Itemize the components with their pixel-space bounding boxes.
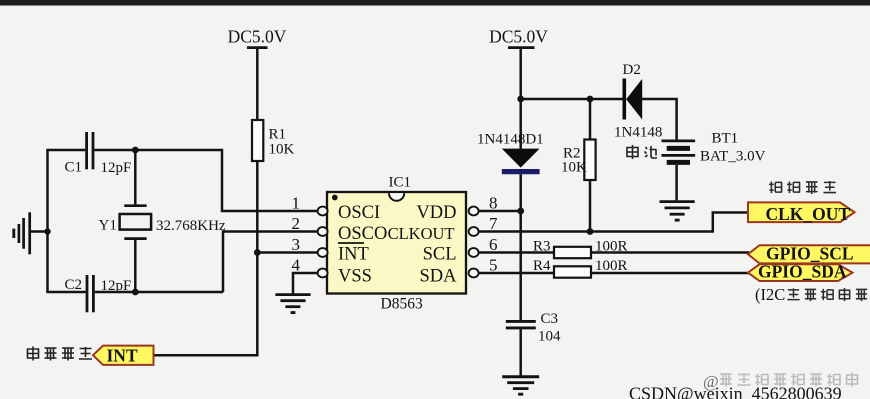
svg-text:6: 6 (489, 235, 498, 254)
label 时钟输出 (769, 181, 836, 194)
pin circles left (318, 207, 328, 278)
svg-text:VDD: VDD (416, 203, 456, 223)
svg-text:SDA: SDA (419, 267, 457, 287)
resistor R1 (252, 120, 263, 161)
IC pin1 marker dot (332, 195, 338, 201)
label 中断输出 (28, 347, 93, 361)
svg-text:C3: C3 (541, 311, 559, 327)
wire DC5.0V to R1 (256, 48, 259, 120)
junction dot vdd top (517, 96, 524, 103)
port GPIO_SCL (748, 245, 870, 263)
wire R3 to GPIO_SCL (591, 251, 749, 254)
IC notch (389, 193, 404, 201)
junction dot R2 top (587, 96, 594, 103)
svg-text:VSS: VSS (338, 267, 372, 287)
wire pin2 to bottom rail (223, 232, 318, 293)
svg-text:8: 8 (489, 194, 498, 213)
wire pin5 SDA (479, 272, 554, 275)
svg-text:5: 5 (489, 256, 498, 275)
svg-text:GPIO_SDA: GPIO_SDA (758, 262, 847, 282)
wire pin8 (479, 210, 521, 213)
junction dot pin3 line (254, 249, 261, 256)
wire pin7 CLKOUT to CLK_OUT (479, 213, 748, 232)
junction dot crystal bottom (132, 289, 139, 296)
svg-text:DC5.0V: DC5.0V (489, 27, 548, 47)
resistor R2 (589, 99, 592, 140)
watermark juejin (703, 372, 858, 391)
svg-text:CLK_OUT: CLK_OUT (766, 204, 851, 224)
svg-text:10K: 10K (561, 160, 587, 176)
junction dot pin8 (517, 208, 524, 215)
top border bar (0, 0, 870, 6)
wire INT horizontal (153, 354, 259, 357)
svg-text:4: 4 (292, 256, 301, 275)
wire top rail left segment (46, 149, 85, 152)
junction dot R2 bottom (587, 228, 594, 235)
wire left rail (46, 150, 49, 292)
svg-text:104: 104 (538, 329, 561, 345)
wire riser to pin1 (222, 151, 318, 211)
svg-text:32.768KHz: 32.768KHz (156, 218, 226, 234)
svg-text:BAT_3.0V: BAT_3.0V (700, 149, 766, 165)
svg-text:INT: INT (107, 346, 138, 366)
svg-text:D2: D2 (623, 62, 641, 78)
wire node to pin3 (257, 251, 318, 254)
svg-text:C1: C1 (65, 160, 83, 176)
svg-text:GPIO_SCL: GPIO_SCL (766, 244, 854, 264)
svg-text:C2: C2 (65, 277, 83, 293)
capacitor C3 (506, 321, 536, 375)
capacitor C1 (87, 132, 93, 169)
wire D2 to battery (642, 99, 677, 140)
power rail bar left (247, 46, 268, 49)
power rail bar right (508, 46, 535, 49)
capacitor C2 (87, 275, 93, 312)
wire D1 to VDD rail (519, 174, 522, 321)
pin circles right (469, 207, 479, 278)
wire R1 to INT corner (256, 161, 259, 355)
battery BT1 (662, 141, 696, 201)
junction dot ground-rail (44, 228, 50, 234)
svg-text:7: 7 (489, 214, 498, 233)
wire pin4 to ground (293, 273, 318, 294)
svg-text:2: 2 (292, 214, 301, 233)
svg-text:R3: R3 (533, 239, 551, 255)
junction dot crystal top (132, 147, 139, 154)
svg-text:D8563: D8563 (381, 296, 423, 313)
ground (pin4 VSS) (275, 295, 310, 313)
svg-text:IC1: IC1 (389, 175, 412, 191)
svg-text:(I2C: (I2C (755, 285, 785, 304)
svg-text:1N4148: 1N4148 (614, 125, 662, 141)
svg-text:CSDN@weixin_4562800639: CSDN@weixin_4562800639 (629, 384, 842, 399)
svg-text:R1: R1 (269, 127, 287, 143)
wire top rail right segment (94, 149, 223, 152)
ground (C3) (502, 377, 539, 394)
svg-text:CLKOUT: CLKOUT (388, 224, 455, 243)
wire bottom rail left segment (46, 291, 85, 294)
ground (left, crystal) (14, 212, 48, 254)
svg-text:1: 1 (292, 194, 301, 213)
wire pin6 SCL (479, 251, 554, 254)
label 电池 (627, 145, 657, 159)
svg-text:3: 3 (292, 235, 301, 254)
wire top horizontal to D2 (521, 98, 623, 101)
svg-text:BT1: BT1 (712, 131, 739, 147)
port INT (93, 346, 154, 365)
ground (battery) (660, 202, 695, 221)
svg-text:Y1: Y1 (99, 218, 117, 234)
resistor R3 (554, 247, 591, 258)
wire R2 to pin7 line (589, 180, 592, 232)
svg-text:1N4148D1: 1N4148D1 (477, 132, 544, 148)
svg-text:SCL: SCL (423, 245, 457, 265)
wire R4 to GPIO_SDA (591, 272, 749, 275)
svg-text:10K: 10K (269, 142, 295, 158)
svg-text:DC5.0V: DC5.0V (228, 27, 287, 47)
diode D1 (502, 149, 540, 168)
crystal Y1 (120, 150, 152, 292)
wire bottom rail right segment (95, 291, 224, 294)
svg-text:OSCI: OSCI (338, 203, 380, 223)
op IC1 D8563 body (327, 192, 466, 294)
svg-text:INT: INT (338, 245, 369, 265)
svg-text:12pF: 12pF (101, 160, 132, 176)
port GPIO_SDA (748, 264, 853, 281)
svg-text:R4: R4 (533, 258, 551, 274)
svg-text:100R: 100R (595, 258, 628, 274)
port CLK_OUT (748, 202, 855, 222)
wire DC5.0V down to D1 (519, 48, 522, 149)
resistor R4 (554, 266, 591, 277)
svg-text:OSCO: OSCO (338, 224, 387, 244)
